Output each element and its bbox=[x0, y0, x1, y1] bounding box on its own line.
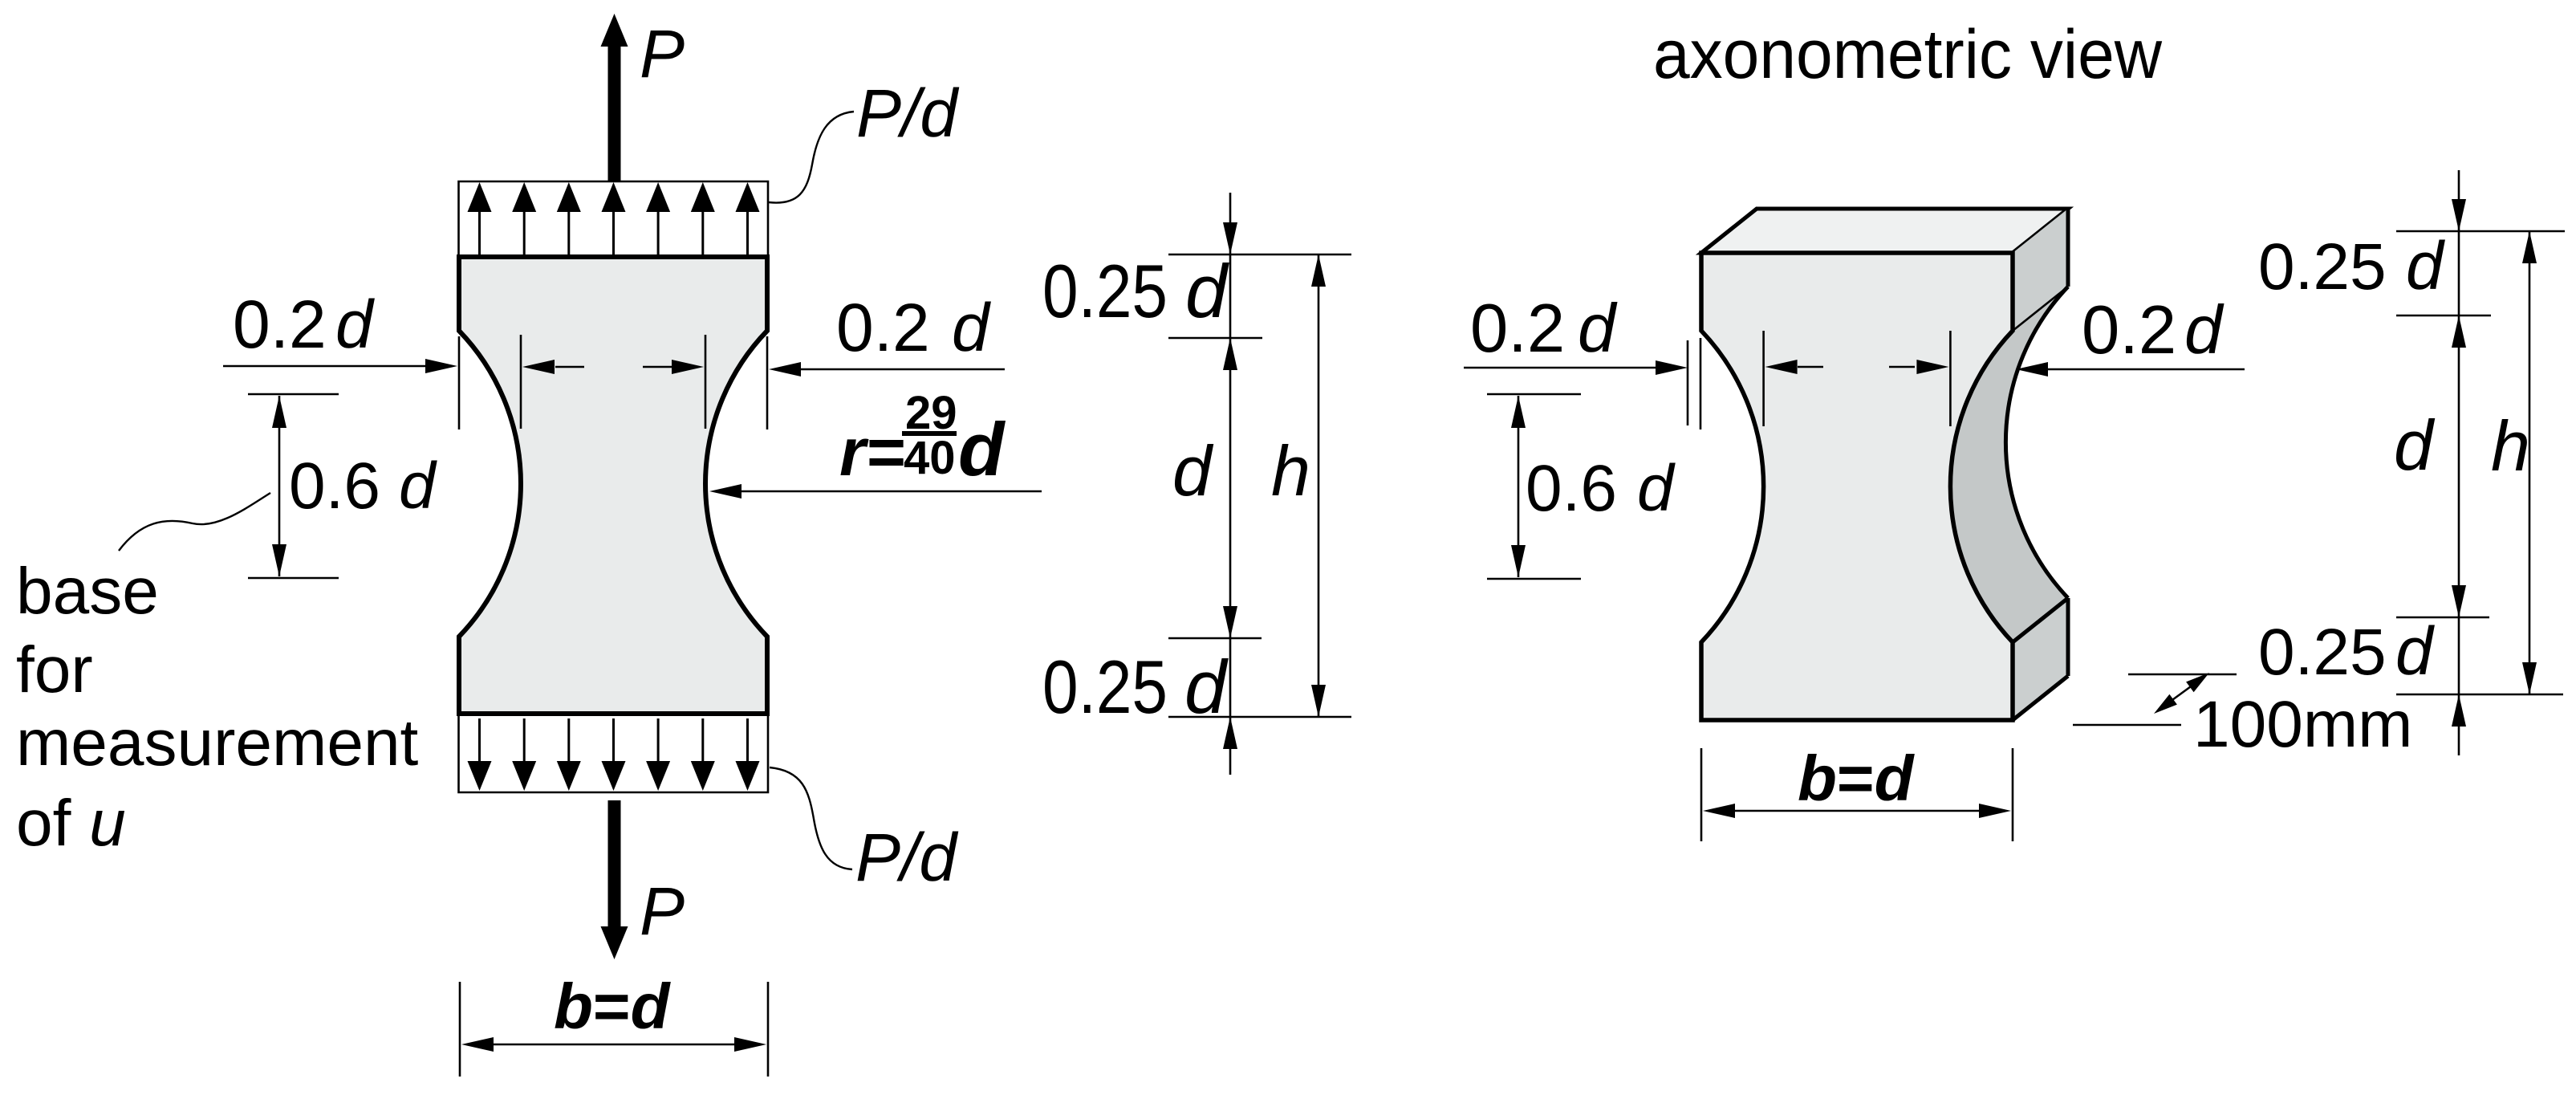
right chain tick bottom bbox=[2396, 694, 2563, 696]
right chain arrows on d line bbox=[2452, 199, 2466, 231]
middle chain tick lower-shoulder bbox=[1168, 637, 1262, 640]
svg-text:P/d: P/d bbox=[855, 820, 958, 895]
svg-text:of u: of u bbox=[16, 787, 126, 860]
dimension line 0.2 d (axon left) bbox=[1464, 367, 1658, 369]
right chain arrows on h line bbox=[2522, 231, 2537, 263]
svg-text:d: d bbox=[1185, 249, 1229, 333]
svg-text:r: r bbox=[839, 414, 869, 490]
svg-text:P: P bbox=[640, 16, 685, 92]
svg-text:0.2: 0.2 bbox=[233, 287, 327, 362]
right chain tick upper-shoulder bbox=[2396, 315, 2491, 317]
0.6 d dimension line (axon) bbox=[1518, 396, 1520, 577]
inner arrow toward right waist (axon) bbox=[1889, 366, 1915, 368]
dimension line 0.2 d (2D right) bbox=[798, 368, 1005, 371]
middle chain tick top bbox=[1168, 254, 1351, 256]
svg-text:0.2: 0.2 bbox=[836, 290, 930, 365]
0.6 d dimension ticks (2D) bbox=[248, 393, 339, 396]
right chain tick lower-shoulder bbox=[2396, 617, 2489, 619]
middle chain tick upper-shoulder bbox=[1168, 337, 1262, 340]
right chain dimension line d bbox=[2458, 170, 2460, 755]
svg-text:d: d bbox=[2184, 292, 2225, 368]
svg-text:0.2: 0.2 bbox=[1470, 291, 1565, 367]
right chain tick top bbox=[2396, 230, 2565, 233]
axonometric bottom-right diagonal edge bbox=[2013, 676, 2068, 720]
100mm thickness extension lines bbox=[2128, 674, 2237, 676]
top distributed-load box bbox=[459, 181, 769, 254]
extension tick right waist (2D) bbox=[705, 335, 707, 429]
svg-text:100mm: 100mm bbox=[2193, 688, 2412, 761]
svg-text:0.6: 0.6 bbox=[289, 450, 380, 523]
svg-text:b=d: b=d bbox=[554, 971, 672, 1042]
svg-text:axonometric view: axonometric view bbox=[1653, 16, 2163, 93]
dimension line 0.2 d (axon right) bbox=[2046, 368, 2245, 371]
axonometric lower shoulder diagonal edge bbox=[2013, 598, 2068, 642]
b=d dimension line (2D) bbox=[490, 1044, 737, 1046]
extension tick left edge (2D) bbox=[458, 336, 461, 429]
inner arrow toward right waist (2D) bbox=[643, 366, 672, 368]
svg-text:d: d bbox=[399, 450, 437, 523]
svg-text:P: P bbox=[640, 873, 685, 949]
inner arrow toward left waist (2D) bbox=[555, 366, 584, 368]
svg-text:0.25: 0.25 bbox=[1042, 249, 1168, 333]
svg-text:0.6: 0.6 bbox=[1526, 452, 1617, 525]
svg-text:0.25: 0.25 bbox=[2258, 616, 2387, 689]
axonometric curved notch surface bbox=[1950, 287, 2068, 642]
axonometric upper shoulder diagonal edge (thin) bbox=[2013, 287, 2068, 331]
svg-text:base: base bbox=[16, 555, 159, 628]
svg-text:d: d bbox=[1172, 431, 1214, 511]
extension tick left waist (2D) bbox=[520, 335, 522, 429]
svg-text:d: d bbox=[335, 287, 375, 362]
svg-text:d: d bbox=[2395, 613, 2435, 689]
svg-text:0.25: 0.25 bbox=[2258, 230, 2387, 303]
right chain dimension line h bbox=[2529, 231, 2531, 694]
svg-text:h: h bbox=[2491, 406, 2530, 486]
middle chain arrows on d line bbox=[1223, 222, 1237, 254]
svg-text:measurement: measurement bbox=[16, 706, 419, 779]
svg-text:d: d bbox=[1637, 452, 1676, 525]
axonometric right upper side quad bbox=[2013, 209, 2068, 331]
distributed load arrows P/d (bottom, downward) bbox=[478, 718, 481, 761]
0.6 d dimension line (2D) bbox=[278, 396, 281, 576]
axonometric back notch arc edge bbox=[2005, 287, 2068, 598]
svg-text:h: h bbox=[1271, 431, 1310, 511]
wavy leader to measurement-base note bbox=[119, 493, 270, 551]
svg-text:=: = bbox=[867, 414, 906, 490]
axonometric back-right vertical edges bbox=[2066, 209, 2070, 287]
svg-text:P/d: P/d bbox=[856, 75, 959, 151]
inner arrow toward left waist (axon) bbox=[1798, 366, 1823, 368]
middle chain dimension line d bbox=[1229, 193, 1232, 775]
0.6 d dimension ticks (axon) bbox=[1487, 393, 1581, 396]
force arrow P (top) bbox=[608, 45, 621, 181]
svg-text:for: for bbox=[16, 633, 93, 706]
svg-text:d: d bbox=[2406, 228, 2445, 303]
svg-text:0.25: 0.25 bbox=[1042, 645, 1168, 729]
svg-text:40: 40 bbox=[904, 432, 956, 484]
svg-text:0.2: 0.2 bbox=[2082, 292, 2176, 368]
axonometric top face bbox=[1701, 209, 2068, 253]
middle chain dimension line h bbox=[1318, 254, 1320, 717]
extension tick left waist (axon) bbox=[1762, 331, 1765, 426]
axonometric front face bbox=[1701, 253, 2013, 720]
leader to P/d label (bottom) bbox=[770, 767, 852, 869]
svg-text:d: d bbox=[2394, 405, 2436, 485]
axonometric right lower side quad bbox=[2013, 598, 2068, 720]
extension tick left edge (axon) bbox=[1687, 340, 1689, 425]
middle chain arrows on h line bbox=[1311, 254, 1326, 287]
svg-text:d: d bbox=[1184, 645, 1229, 729]
leader to P/d label (top) bbox=[769, 112, 854, 203]
leader line for radius r (2D) bbox=[738, 490, 1042, 493]
svg-text:d: d bbox=[1578, 291, 1618, 367]
force arrow P (bottom) bbox=[608, 800, 621, 927]
specimen body (2D front view) bbox=[459, 257, 767, 714]
b=d dimension line (axon) bbox=[1732, 810, 1982, 812]
svg-text:b=d: b=d bbox=[1798, 743, 1916, 814]
dimension line 0.2 d (2D left) bbox=[223, 365, 427, 368]
extension tick right waist (axon) bbox=[1949, 331, 1952, 426]
bottom distributed-load box bbox=[459, 716, 769, 792]
b=d extension lines (axon) bbox=[1700, 748, 1703, 841]
extension tick right edge (2D) bbox=[766, 336, 769, 429]
distributed load arrows P/d (top, upward) bbox=[478, 210, 481, 255]
b=d extension lines (2D) bbox=[459, 982, 461, 1077]
middle chain tick bottom bbox=[1168, 716, 1351, 718]
label r=29/40 d (radius of arc) bbox=[839, 387, 1006, 491]
100mm diagonal depth arrow bbox=[2167, 682, 2196, 704]
svg-text:d: d bbox=[952, 290, 991, 365]
svg-text:d: d bbox=[958, 407, 1006, 491]
